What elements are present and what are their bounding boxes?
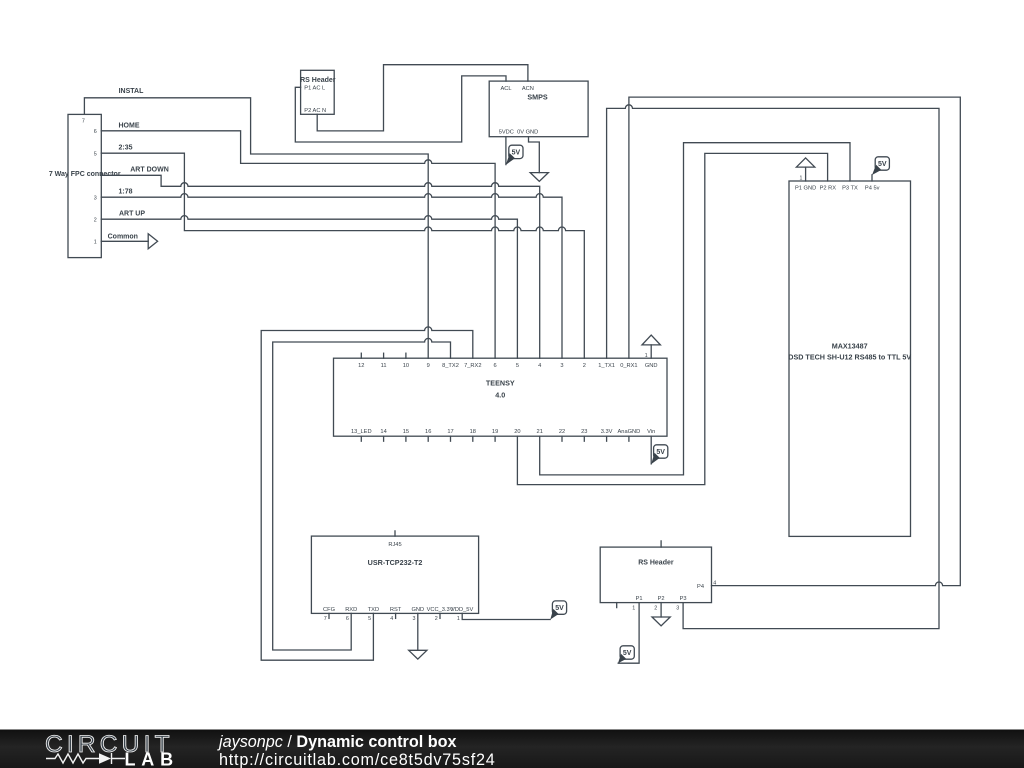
svg-text:P2: P2: [658, 596, 665, 602]
label U1 bottom pin label 19: [492, 429, 498, 435]
wire J3 P1 to 5V flag: [618, 603, 639, 664]
wire pin stub U1 top pin 10: [405, 353, 407, 358]
svg-text:P1 AC L: P1 AC L: [304, 86, 325, 92]
label U1 bottom pin label 18: [470, 429, 476, 435]
svg-text:16: 16: [425, 429, 431, 435]
svg-text:1: 1: [645, 353, 648, 359]
wire pin stub U1 bottom pin 16: [427, 436, 429, 441]
svg-text:5: 5: [94, 152, 97, 158]
node arrow Common: [148, 234, 157, 249]
svg-text:2: 2: [94, 218, 97, 224]
svg-text:7: 7: [82, 119, 85, 125]
svg-text:VDD_5V: VDD_5V: [451, 607, 473, 613]
label U1 bottom pin label 13_LED: [351, 429, 372, 435]
wire J1 pin5 2:35 to TEENSY pin 2: [101, 153, 584, 358]
wire pin stub U1 bottom pin 13_LED: [360, 436, 362, 441]
label net label ART DOWN: [130, 167, 169, 174]
label U3 pin label VCC_3.3V: [427, 607, 454, 613]
svg-text:3: 3: [94, 196, 97, 202]
wire pin stub U1 top pin 12: [360, 353, 362, 358]
footer url: [219, 751, 496, 768]
wire U3 VDD_5V to 5V flag: [462, 613, 550, 619]
svg-text:6: 6: [94, 129, 97, 135]
CircuitLab logo resistor-diode symbol: [46, 753, 125, 764]
label U1 top pin label 10: [403, 363, 409, 369]
label U1 bottom pin label 21: [537, 429, 543, 435]
label U1 bottom pin label AnaGND: [618, 429, 641, 435]
module U2: MAX13487 RS485 converter: [789, 181, 911, 536]
label U1 top pin label 8_TX2: [442, 363, 459, 369]
svg-text:GND: GND: [645, 363, 658, 369]
label U3 pin number 4: [390, 616, 393, 622]
CircuitLab footer bar: [0, 730, 1024, 768]
wire TEENSY 0_RX1 to RS header P4: [629, 97, 960, 585]
svg-text:6: 6: [346, 616, 349, 622]
label U1 bottom pin label 14: [380, 429, 386, 435]
wire pin stub U1 bottom pin 3.3V: [606, 436, 608, 441]
svg-text:17: 17: [447, 429, 453, 435]
label J1 pin number 6: [94, 129, 97, 135]
wire pin stub U3 RST pin: [395, 613, 397, 618]
wire J1 pin3 1:78 to TEENSY pin 3: [101, 194, 562, 359]
wire TEENSY Vin to 5V flag: [650, 436, 652, 464]
label U2 pin P2 RX: [820, 186, 837, 192]
label U2 pin P4 5v: [865, 186, 880, 192]
svg-text:RS Header: RS Header: [638, 559, 674, 566]
svg-text:VCC_3.3V: VCC_3.3V: [427, 607, 454, 613]
wire pin stub U1 bottom pin 18: [472, 436, 474, 441]
label U3 pin number 7: [324, 616, 327, 622]
svg-text:RS Header: RS Header: [300, 77, 336, 84]
svg-text:9: 9: [427, 363, 430, 369]
label U3 pin label TXD: [368, 607, 379, 613]
svg-text:4: 4: [538, 363, 541, 369]
svg-text:4: 4: [713, 580, 716, 586]
svg-text:15: 15: [403, 429, 409, 435]
svg-text:5V: 5V: [512, 150, 521, 157]
svg-text:1: 1: [457, 616, 460, 622]
label J3 pin number 2: [654, 606, 657, 612]
label U3 pin number 3: [413, 616, 416, 622]
wire pin stub U1 bottom pin 17: [450, 436, 452, 441]
label J1 pin number 2: [94, 218, 97, 224]
label connector J1 name: [49, 171, 121, 178]
wire J1 pin1 Common: [101, 240, 148, 242]
label SMPS name: [527, 92, 548, 101]
svg-text:13_LED: 13_LED: [351, 429, 372, 435]
wire pin stub U1 bottom pin 15: [405, 436, 407, 441]
svg-text:P1: P1: [636, 596, 643, 602]
svg-text:P2 AC N: P2 AC N: [304, 108, 326, 114]
label U3 name USR-TCP232-T2: [368, 558, 423, 567]
svg-text:20: 20: [514, 429, 520, 435]
label J3 pin number 3: [676, 606, 679, 612]
svg-text:3: 3: [560, 363, 563, 369]
wire pin stub J3 unconnected bottom pin: [616, 603, 618, 608]
svg-text:Common: Common: [108, 233, 138, 240]
label net label Common: [108, 233, 138, 240]
svg-text:RJ45: RJ45: [388, 542, 401, 548]
wire U3 GND to ground: [417, 613, 419, 650]
svg-text:5V: 5V: [623, 650, 632, 657]
svg-text:1_TX1: 1_TX1: [598, 363, 615, 369]
label U3 pin number 2: [435, 616, 438, 622]
svg-text:P4 5v: P4 5v: [865, 186, 880, 192]
svg-text:0V GND: 0V GND: [517, 130, 538, 136]
svg-text:ACN: ACN: [522, 86, 534, 92]
svg-text:3.3V: 3.3V: [601, 429, 613, 435]
svg-text:5V: 5V: [656, 449, 665, 456]
svg-text:5: 5: [368, 616, 371, 622]
label J3 pin number 1: [632, 606, 635, 612]
svg-text:2: 2: [583, 363, 586, 369]
svg-text:P1 GND: P1 GND: [795, 186, 816, 192]
svg-text:3: 3: [413, 616, 416, 622]
svg-text:RST: RST: [390, 607, 402, 613]
5V voltage flag on MAX13487 P4: [872, 157, 889, 175]
svg-text:8_TX2: 8_TX2: [442, 363, 459, 369]
wire SMPS 5VDC to 5V flag: [505, 137, 507, 165]
label net label 1:78: [118, 189, 132, 196]
svg-text:14: 14: [380, 429, 386, 435]
wire pin stub U1 bottom pin 22: [561, 436, 563, 441]
ground symbol below J3 P2: [652, 617, 670, 626]
label U1 bottom pin label Vin: [647, 429, 655, 435]
footer title jaysonpc / Dynamic control box: [217, 733, 457, 751]
label J3 pin number 4: [713, 580, 716, 586]
wire TEENSY pin 20 to MAX13487 P2 RX: [517, 153, 827, 484]
svg-text:USR-TCP232-T2: USR-TCP232-T2: [368, 558, 423, 567]
label U1 bottom pin label 16: [425, 429, 431, 435]
wire TEENSY 1_TX1 to RS header P3: [607, 105, 939, 629]
label U1 top pin label 7_RX2: [464, 363, 481, 369]
ground symbol below USR-TCP232-T2: [409, 650, 427, 659]
svg-text:ACL: ACL: [500, 86, 511, 92]
svg-text:5: 5: [516, 363, 519, 369]
header J3: RS Header (RS485): [600, 547, 711, 603]
label U1 bottom pin label 22: [559, 429, 565, 435]
label U1 bottom pin label 3.3V: [601, 429, 613, 435]
wire pin stub U3 VCC_3.3V pin: [439, 613, 441, 618]
label J1 pin number 3: [94, 196, 97, 202]
svg-text:LAB: LAB: [125, 750, 179, 768]
label U1 bottom pin label 23: [581, 429, 587, 435]
svg-text:11: 11: [381, 363, 387, 369]
label SMPS pin ACN: [522, 86, 534, 92]
wire pin stub U3 RJ45 top pin: [394, 531, 396, 536]
wire U3 RXD to TEENSY 8_TX2: [273, 338, 451, 650]
svg-text:1:78: 1:78: [118, 189, 132, 196]
label U1 name TEENSY: [486, 379, 515, 388]
svg-text:1: 1: [94, 240, 97, 246]
svg-text:0_RX1: 0_RX1: [620, 363, 637, 369]
svg-text:2:35: 2:35: [118, 145, 132, 152]
module U3: USR-TCP232-T2: [311, 536, 478, 613]
svg-text:6: 6: [494, 363, 497, 369]
label U1 top pin label 6: [494, 363, 497, 369]
svg-text:SMPS: SMPS: [527, 92, 548, 101]
svg-text:2: 2: [654, 606, 657, 612]
label U3 pin label GND: [411, 607, 424, 613]
svg-text:ART UP: ART UP: [119, 211, 145, 218]
wire pin stub U1 bottom pin AnaGND: [628, 436, 630, 441]
wire J1 pin7 INSTAL to TEENSY pin 9: [84, 98, 428, 358]
label U1 top pin label 9: [427, 363, 430, 369]
svg-text:P3: P3: [680, 596, 687, 602]
svg-text:HOME: HOME: [119, 123, 140, 130]
5V voltage flag on USR VDD_5V: [550, 601, 566, 620]
label J3 pin P3: [680, 596, 687, 602]
label U1 top pin label GND: [645, 363, 658, 369]
svg-text:AnaGND: AnaGND: [618, 429, 641, 435]
label U3 pin number 6: [346, 616, 349, 622]
svg-text:23: 23: [581, 429, 587, 435]
label U1 top pin label 3: [560, 363, 563, 369]
svg-text:4.0: 4.0: [495, 391, 505, 400]
label U3 pin number 1: [457, 616, 460, 622]
wire pin stub U1 bottom pin 14: [383, 436, 385, 441]
wire pin stub U1 bottom pin 19: [494, 436, 496, 441]
label U1 bottom pin label 15: [403, 429, 409, 435]
wire pin stub U1 top pin 11: [383, 353, 385, 358]
svg-text:DSD TECH SH-U12 RS485 to TTL 5: DSD TECH SH-U12 RS485 to TTL 5V: [788, 352, 911, 361]
label J1 pin number 1: [94, 240, 97, 246]
label J3 pin P2: [658, 596, 665, 602]
wire TEENSY pin 21 to MAX13487 P3 TX: [540, 143, 850, 475]
label node 1 label at TEENSY GND: [645, 353, 648, 359]
wire J1 pin6 HOME to TEENSY pin 6: [101, 131, 495, 358]
connector J1: 7 Way FPC connector body: [68, 114, 101, 257]
label net label 2:35: [118, 145, 132, 152]
5V voltage flag on SMPS 5VDC: [506, 145, 523, 165]
CircuitLab logo LAB: [125, 750, 179, 768]
label U1 top pin label 1_TX1: [598, 363, 615, 369]
svg-text:CFG: CFG: [323, 607, 335, 613]
label U3 pin RJ45: [388, 542, 401, 548]
label U3 pin label CFG: [323, 607, 335, 613]
svg-text:10: 10: [403, 363, 409, 369]
5V voltage flag on J3 P1: [618, 646, 634, 663]
power arrow above TEENSY GND pin (node 1): [642, 335, 660, 358]
label U1 top pin label 5: [516, 363, 519, 369]
wire pin stub U1 bottom pin 23: [583, 436, 585, 441]
label J3 pin P1: [636, 596, 643, 602]
svg-text:P4: P4: [697, 584, 704, 590]
label J2 pin P1 AC L: [304, 86, 325, 92]
svg-text:1: 1: [632, 606, 635, 612]
label U1 top pin label 12: [358, 363, 364, 369]
ground symbol below SMPS: [530, 173, 548, 182]
svg-text:Vin: Vin: [647, 429, 655, 435]
label SMPS pin 0V GND: [517, 130, 538, 136]
label net label HOME: [119, 123, 140, 130]
label U1 bottom pin label 20: [514, 429, 520, 435]
5V voltage flag on TEENSY Vin: [651, 445, 668, 464]
label U1 top pin label 11: [381, 363, 387, 369]
svg-text:P2 RX: P2 RX: [820, 186, 837, 192]
svg-text:INSTAL: INSTAL: [119, 88, 144, 95]
wire J1 pin2 ART UP to TEENSY pin 5: [101, 216, 517, 359]
wire MAX13487 P4 to 5V flag: [871, 175, 873, 181]
svg-text:7: 7: [324, 616, 327, 622]
label U1 top pin label 2: [583, 363, 586, 369]
svg-text:5VDC: 5VDC: [499, 130, 514, 136]
label J2 pin P2 AC N: [304, 108, 326, 114]
svg-text:7_RX2: 7_RX2: [464, 363, 481, 369]
svg-text:TXD: TXD: [368, 607, 379, 613]
svg-text:19: 19: [492, 429, 498, 435]
label U3 pin label VDD_5V: [451, 607, 473, 613]
wire pin stub J3 top pin: [660, 541, 662, 547]
svg-text:http://circuitlab.com/ce8t5dv7: http://circuitlab.com/ce8t5dv75sf24: [219, 751, 496, 768]
svg-text:5V: 5V: [555, 605, 564, 612]
label SMPS pin ACL: [500, 86, 511, 92]
label U2 pin P3 TX: [842, 186, 858, 192]
label net label INSTAL: [119, 88, 144, 95]
svg-text:4: 4: [390, 616, 393, 622]
label U2 name DSD TECH SH-U12 RS485 to TTL 5V: [788, 352, 911, 361]
label J3 pin P4: [697, 584, 704, 590]
CircuitLab logo CIRCUIT: [45, 731, 174, 758]
power arrow above MAX13487 P1 GND (node 1): [796, 158, 814, 181]
svg-text:2: 2: [435, 616, 438, 622]
wire J3 P2 to ground: [660, 603, 662, 617]
svg-text:P3 TX: P3 TX: [842, 186, 858, 192]
wire J1 pin4 ART DOWN to TEENSY pin 4: [101, 175, 539, 358]
svg-text:21: 21: [537, 429, 543, 435]
wire U3 TXD to TEENSY 7_RX2: [261, 327, 473, 660]
svg-text:12: 12: [358, 363, 364, 369]
label U2 pin P1 GND: [795, 186, 816, 192]
svg-text:22: 22: [559, 429, 565, 435]
svg-text:3: 3: [676, 606, 679, 612]
label U1 name 4.0: [495, 391, 505, 400]
label U1 top pin label 0_RX1: [620, 363, 637, 369]
svg-text:TEENSY: TEENSY: [486, 379, 515, 388]
svg-text:MAX13487: MAX13487: [832, 341, 868, 350]
label U3 pin label RST: [390, 607, 402, 613]
svg-text:5V: 5V: [878, 161, 887, 168]
label SMPS pin 5VDC: [499, 130, 514, 136]
label U2 name MAX13487: [832, 341, 868, 350]
header J2: RS Header (AC): [301, 70, 335, 114]
label U3 pin number 5: [368, 616, 371, 622]
wire J2 P1 to SMPS ACL: [295, 76, 506, 142]
label net label ART UP: [119, 211, 145, 218]
wire J2 P2 to SMPS ACN: [317, 65, 528, 131]
svg-text:RXD: RXD: [345, 607, 357, 613]
wire pin stub U3 CFG pin: [328, 613, 330, 618]
label J3 name RS Header: [638, 559, 674, 566]
label U1 bottom pin label 17: [447, 429, 453, 435]
label J2 name RS Header: [300, 77, 336, 84]
wire SMPS 0V GND to ground: [529, 137, 540, 173]
label U1 top pin label 4: [538, 363, 541, 369]
label U3 pin label RXD: [345, 607, 357, 613]
label J1 pin number 7: [82, 119, 85, 125]
label node 1 label at MAX13487 P1: [800, 175, 803, 181]
power supply SMPS: [489, 81, 588, 137]
svg-text:GND: GND: [411, 607, 424, 613]
svg-text:1: 1: [800, 175, 803, 181]
label J1 pin number 5: [94, 152, 97, 158]
svg-text:ART DOWN: ART DOWN: [130, 167, 169, 174]
microcontroller U1: TEENSY 4.0: [334, 358, 668, 436]
svg-text:18: 18: [470, 429, 476, 435]
svg-text:jaysonpc / Dynamic control box: jaysonpc / Dynamic control box: [217, 733, 457, 751]
